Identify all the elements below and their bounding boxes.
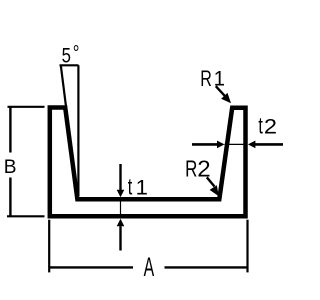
svg-text:A: A — [144, 252, 155, 282]
t1 lower arrowhead — [117, 219, 125, 227]
t2 left arrowhead — [217, 141, 225, 149]
svg-text:2: 2 — [264, 114, 277, 138]
t1 upper arrowhead — [117, 190, 125, 198]
svg-text:5: 5 — [62, 45, 71, 68]
t2 right arrowhead — [248, 141, 256, 149]
angle vertical line — [77, 65, 79, 196]
dimension B top extension — [8, 106, 45, 108]
t2 left arrow shaft — [192, 143, 218, 146]
arrowhead R2 — [210, 185, 219, 196]
leader R1 — [216, 86, 227, 98]
angle slant line — [61, 65, 78, 197]
svg-text:R: R — [185, 157, 197, 182]
t1 lower arrow shaft — [119, 226, 121, 250]
dimension B bottom extension — [7, 215, 45, 217]
t1 dim line through web — [120, 197, 122, 219]
t2 dim line through leg — [225, 143, 248, 145]
svg-text:2: 2 — [197, 156, 210, 181]
t2 right arrow shaft — [255, 143, 283, 146]
svg-text:t: t — [258, 114, 263, 140]
channel outline — [50, 108, 246, 217]
svg-text:t: t — [128, 175, 133, 201]
t1 upper arrow shaft — [119, 164, 121, 190]
dimension A line — [49, 266, 247, 268]
dimension A right extension — [246, 220, 248, 273]
dimension A left extension — [48, 220, 50, 273]
svg-text:°: ° — [73, 42, 80, 65]
angle bracket 5deg — [60, 64, 79, 66]
leader R2 — [207, 177, 215, 186]
arrowhead R1 — [221, 93, 231, 103]
svg-text:1: 1 — [136, 176, 148, 199]
dimension B line — [9, 107, 11, 217]
svg-text:B: B — [4, 156, 17, 178]
svg-text:R: R — [200, 68, 212, 92]
